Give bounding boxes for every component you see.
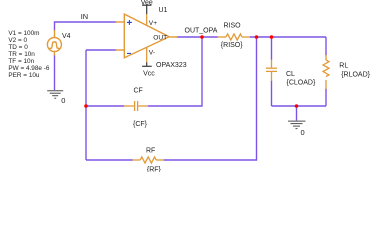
- voltage source V4: [47, 30, 61, 56]
- svg-text:Vcc: Vcc: [143, 70, 155, 77]
- svg-text:Vee: Vee: [141, 0, 153, 6]
- svg-text:PW = 4.98e -6: PW = 4.98e -6: [8, 65, 49, 72]
- svg-text:RL: RL: [339, 62, 348, 69]
- svg-text:CL: CL: [286, 71, 295, 78]
- wire RF row right up to RISO output node: [164, 37, 257, 160]
- wire CF row left: [86, 105, 124, 107]
- svg-text:V1 = 100m: V1 = 100m: [8, 30, 39, 37]
- ground 0 under V4: [47, 91, 63, 99]
- junction node OUT_OPA: [200, 35, 204, 39]
- wire inverting input horizontal: [86, 49, 116, 51]
- junction node after RISO: [255, 35, 259, 39]
- svg-text:0: 0: [61, 96, 65, 105]
- svg-text:V4: V4: [62, 33, 71, 40]
- junction node load top: [270, 35, 274, 39]
- op-amp pin labels: [149, 20, 167, 56]
- wire V4 bottom to ground: [54, 55, 56, 90]
- wire RL branch vertical bottom: [325, 89, 327, 107]
- op-amp + marker: [127, 20, 132, 25]
- svg-text:TF = 10n: TF = 10n: [8, 58, 34, 65]
- svg-text:RISO: RISO: [224, 23, 242, 30]
- resistor RF: [133, 157, 164, 163]
- Vee supply pin: [146, 14, 148, 25]
- resistor RL: [323, 55, 329, 89]
- svg-text:0: 0: [301, 128, 305, 137]
- op-amp U1: [124, 14, 169, 58]
- svg-text:OPAX323: OPAX323: [156, 62, 187, 69]
- wire RISO to load top: [250, 36, 326, 38]
- svg-text:{RF}: {RF}: [147, 167, 162, 172]
- wire U1 output to RISO: [177, 36, 218, 38]
- wire CL branch vertical bottom: [271, 81, 273, 107]
- junction node CF left: [84, 104, 88, 108]
- svg-text:{CLOAD}: {CLOAD}: [287, 79, 316, 86]
- svg-text:TR = 10n: TR = 10n: [8, 51, 35, 58]
- Vcc supply pin: [146, 47, 148, 62]
- capacitor CF: [124, 101, 148, 111]
- svg-text:RF: RF: [146, 147, 155, 154]
- svg-text:{RISO}: {RISO}: [221, 42, 243, 49]
- V4 source parameter text block: [8, 30, 49, 79]
- wire CL branch vertical top: [271, 37, 273, 60]
- svg-text:{RLOAD}: {RLOAD}: [341, 71, 370, 78]
- wire ground stem under load: [296, 106, 298, 121]
- svg-text:V+: V+: [149, 20, 157, 27]
- svg-text:TD = 0: TD = 0: [8, 44, 28, 51]
- wire CF row right up to OUT_OPA: [148, 37, 202, 106]
- svg-text:CF: CF: [134, 87, 143, 94]
- junction node load bottom / ground: [295, 104, 299, 108]
- svg-text:OUT: OUT: [153, 35, 167, 42]
- resistor RISO: [218, 34, 250, 40]
- ground 0 under load: [288, 121, 306, 129]
- wire load bottom rail: [272, 105, 327, 107]
- svg-text:{CF}: {CF}: [133, 121, 148, 128]
- wire IN net: V4 top to U1 + input: [55, 22, 117, 31]
- svg-text:OUT_OPA: OUT_OPA: [185, 27, 218, 34]
- wire RL branch vertical top: [325, 37, 327, 56]
- wire feedback left vertical: [85, 50, 87, 160]
- op-amp - marker: [127, 52, 131, 54]
- svg-text:V2 = 0: V2 = 0: [8, 37, 27, 44]
- capacitor CL: [266, 60, 277, 82]
- svg-text:V-: V-: [149, 49, 155, 56]
- svg-text:U1: U1: [159, 7, 168, 14]
- svg-text:PER = 10u: PER = 10u: [8, 72, 40, 79]
- wire RF row left: [86, 159, 133, 161]
- op-amp input leads: [116, 22, 178, 50]
- svg-text:IN: IN: [81, 12, 88, 21]
